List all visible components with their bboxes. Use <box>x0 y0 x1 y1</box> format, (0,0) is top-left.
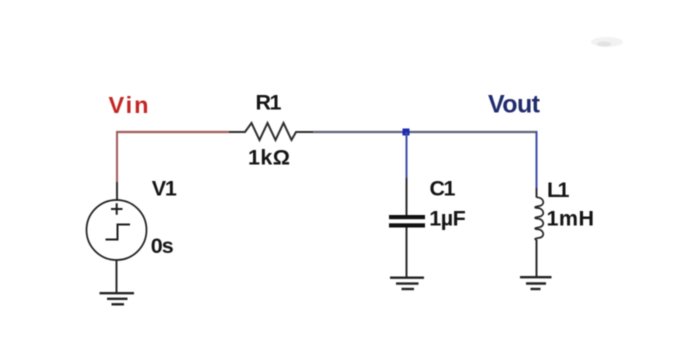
wire V1 bottom <box>116 260 118 294</box>
value label 1kΩ <box>248 145 290 169</box>
ground under L1 <box>520 277 552 289</box>
wire Vin vertical (red) <box>116 131 118 182</box>
wire capacitor top (blue) <box>406 132 408 178</box>
ground under C1 <box>390 278 424 289</box>
svg-text:1µF: 1µF <box>429 207 466 231</box>
node Vout <box>488 91 541 119</box>
value label 1mH <box>547 207 595 231</box>
wire inductor top lower (dark) <box>536 188 538 198</box>
svg-text:0s: 0s <box>151 234 174 258</box>
resistor R1 <box>229 91 315 141</box>
svg-text:V1: V1 <box>152 176 177 200</box>
ground under V1 <box>100 293 135 304</box>
value label 1µF <box>429 207 466 231</box>
voltage source V1 <box>87 176 177 260</box>
value label 0s <box>151 234 174 258</box>
wire inductor top (blue) <box>536 131 538 188</box>
svg-text:1kΩ: 1kΩ <box>248 145 290 169</box>
wire Vout rail (gray-blue) <box>313 131 537 133</box>
svg-text:1mH: 1mH <box>547 207 595 231</box>
svg-text:Vout: Vout <box>488 91 541 119</box>
capacitor C1 <box>389 177 456 228</box>
wire capacitor top lower (dark) <box>406 178 408 215</box>
svg-text:R1: R1 <box>256 91 282 115</box>
inductor L1 <box>535 178 569 240</box>
node Vin <box>109 92 149 118</box>
wire Vin vertical lower (dark) <box>116 182 118 200</box>
svg-text:L1: L1 <box>547 178 570 202</box>
junction at node Vout <box>403 129 410 136</box>
wire capacitor bottom <box>406 228 408 279</box>
wire inductor bottom <box>536 240 538 279</box>
svg-text:C1: C1 <box>430 177 456 201</box>
svg-text:Vin: Vin <box>109 92 149 118</box>
wire Vin horizontal (red) <box>116 131 229 133</box>
